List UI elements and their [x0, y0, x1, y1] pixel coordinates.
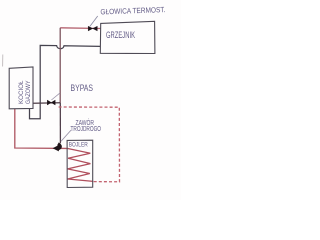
pointer line from BYPAS label to riser	[51, 93, 60, 100]
wire: dark pipe from bypass tee down to three-way valve	[59, 103, 61, 143]
shut-off valve (bowtie) on boiler supply	[47, 100, 55, 105]
svg-text:TRÓJDROGO: TRÓJDROGO	[71, 124, 102, 133]
label ZAWOR TROJDROGOWY	[71, 118, 102, 133]
paper background	[0, 0, 181, 200]
pointer line from GLOWICA TERMOST label to valve	[90, 16, 98, 26]
wire: red CH supply riser (bypass tee up to radiator line)	[59, 28, 61, 103]
bojler box	[67, 140, 93, 187]
faint scan artifact line at left margin	[2, 55, 4, 67]
svg-text:GAZOWY: GAZOWY	[26, 81, 32, 105]
svg-text:BOJLER: BOJLER	[69, 142, 89, 148]
label GLOWICA TERMOST	[100, 5, 165, 16]
three-way valve flow arrow (black, turning left onto red pipe)	[53, 142, 62, 151]
label GRZEJNIK	[106, 30, 135, 40]
wire: red CH supply horizontal to radiator valve	[60, 27, 100, 30]
svg-text:GRZEJNIK: GRZEJNIK	[106, 30, 135, 40]
boiler box KOCIOL GAZOWY	[9, 67, 33, 109]
label BYPAS	[71, 83, 94, 93]
label BOJLER	[69, 142, 89, 148]
label KOCIOL GAZOWY (rotated)	[19, 80, 32, 104]
wire: dashed red DHW loop (tee - right - down - to coil outlet)	[59, 107, 120, 182]
svg-text:KOCIOŁ: KOCIOŁ	[19, 80, 25, 104]
wire: boiler supply stub to shut-off valve and bypass tee	[33, 102, 60, 105]
wire: red boiler-to-bojler pipe (down from boiler, right to coil)	[15, 109, 67, 148]
svg-text:BYPAS: BYPAS	[71, 83, 94, 93]
radiator box GRZEJNIK	[100, 21, 155, 53]
pointer line from ZAWOR label to three-way valve	[61, 130, 71, 141]
wire: dark CH return from radiator with hop over riser, down and into boiler bottom	[30, 45, 101, 118]
thermostatic radiator valve (bowtie) on supply at radiator	[88, 26, 97, 31]
heating coil inside bojler (red zigzag)	[67, 148, 93, 181]
